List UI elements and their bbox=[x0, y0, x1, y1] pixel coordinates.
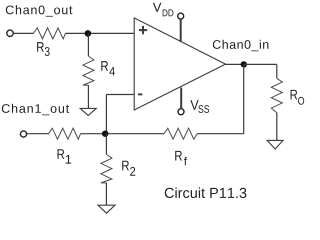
node Chan0_out label bbox=[6, 5, 73, 17]
resistor RO bbox=[271, 78, 282, 112]
wire terminal to R3 bbox=[14, 32, 34, 34]
wire minus input vertical to summing node bbox=[105, 95, 107, 134]
wire feedback vertical from output node bbox=[243, 64, 245, 133]
junction node at R3/R4 bbox=[85, 30, 92, 37]
wire R2 to ground bbox=[105, 183, 107, 205]
wire RO to ground bbox=[276, 113, 278, 141]
terminal Chan0_out bbox=[7, 30, 13, 36]
op-amp plus input marking bbox=[139, 26, 147, 34]
resistor R2 bbox=[101, 154, 112, 183]
resistor Rf bbox=[164, 128, 197, 139]
resistor R3 bbox=[33, 28, 65, 39]
VSS terminal bbox=[178, 109, 184, 115]
junction summing node bbox=[102, 131, 108, 137]
wire terminal to R1 bbox=[27, 133, 49, 135]
ground under RO bbox=[267, 140, 283, 149]
label RO bbox=[291, 90, 305, 105]
VDD label bbox=[153, 3, 174, 17]
VDD supply stem bbox=[180, 19, 182, 42]
wire Rf to summing node bbox=[105, 133, 164, 135]
VSS supply stem bbox=[180, 88, 182, 109]
node Chan0_in label bbox=[213, 40, 269, 52]
label R2 bbox=[122, 161, 135, 176]
VDD terminal bbox=[178, 13, 184, 19]
wire junction to R4 bbox=[87, 33, 89, 56]
node Chan1_out label bbox=[2, 104, 69, 116]
junction node Chan0_in bbox=[241, 61, 247, 67]
wire feedback horizontal to Rf bbox=[197, 133, 244, 135]
resistor R1 bbox=[49, 128, 81, 139]
wire R1 to summing node bbox=[81, 133, 107, 135]
op-amp U1 triangle bbox=[134, 18, 225, 110]
wire down to RO bbox=[276, 64, 278, 78]
terminal Chan1_out bbox=[20, 131, 26, 137]
wire R4 to ground bbox=[87, 85, 89, 108]
VSS label bbox=[190, 100, 209, 113]
label R3 bbox=[37, 42, 50, 56]
wire R3 to op-amp plus input bbox=[65, 32, 134, 34]
label R1 bbox=[58, 149, 72, 163]
label Rf bbox=[175, 151, 187, 165]
label R4 bbox=[101, 61, 115, 75]
wire output node to RO branch bbox=[244, 63, 277, 65]
wire op-amp output bbox=[226, 63, 244, 65]
wire minus input horizontal bbox=[106, 94, 134, 96]
ground under R4 bbox=[80, 108, 96, 115]
op-amp minus input marking bbox=[138, 93, 143, 95]
caption Circuit P11.3 bbox=[165, 187, 247, 198]
resistor R4 bbox=[83, 56, 94, 85]
ground under R2 bbox=[98, 205, 115, 213]
wire summing node to R2 bbox=[105, 134, 107, 155]
